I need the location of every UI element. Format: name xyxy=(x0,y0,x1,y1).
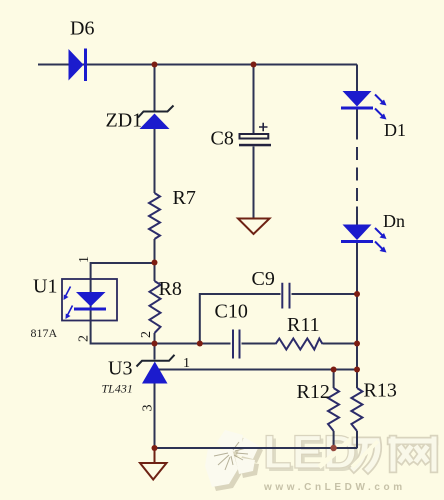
svg-text:U3: U3 xyxy=(108,358,132,380)
watermark dao glyph xyxy=(352,441,378,469)
svg-text:1: 1 xyxy=(77,256,92,263)
svg-text:2: 2 xyxy=(77,335,92,342)
resistor R8 xyxy=(150,278,182,333)
junction at bottom rail and R12 bottom xyxy=(330,445,336,451)
junction at top rail and C8 branch xyxy=(251,62,257,68)
capacitor C9 xyxy=(252,268,290,309)
diode D6 xyxy=(69,18,95,82)
junction at reference wire and R13 top xyxy=(354,367,360,373)
junction at C9 right and LED string column xyxy=(354,291,360,297)
junction at reference wire and R12 top xyxy=(331,367,337,373)
wire: U3 reference pin 1 xyxy=(158,369,357,371)
svg-text:Dn: Dn xyxy=(383,211,405,231)
resistor R12 xyxy=(297,381,340,431)
wire: R13 legs xyxy=(356,370,358,449)
junction at top rail and ZD1 column xyxy=(152,62,158,68)
wire: C8 branch xyxy=(253,65,255,219)
svg-text:C9: C9 xyxy=(252,268,275,290)
svg-text:D6: D6 xyxy=(70,18,94,40)
wire: C10/R11 row xyxy=(155,343,358,345)
junction at R11 right and LED string column xyxy=(354,341,360,347)
LED D1 xyxy=(341,91,406,140)
capacitor C8 xyxy=(211,123,272,150)
svg-text:817A: 817A xyxy=(31,326,58,340)
zener ZD1 xyxy=(106,106,174,132)
svg-text:R12: R12 xyxy=(297,381,330,403)
svg-text:R13: R13 xyxy=(364,380,397,402)
svg-text:C8: C8 xyxy=(211,128,234,150)
junction at R7/R8 node and U1 pin 1 xyxy=(152,260,158,266)
svg-text:U1: U1 xyxy=(33,276,57,298)
optocoupler U1 xyxy=(31,276,118,341)
junction at R8 bottom / U3 cathode node xyxy=(152,341,158,347)
svg-text:D1: D1 xyxy=(384,120,406,140)
watermark flower star xyxy=(205,430,263,491)
resistor R13 xyxy=(351,380,396,432)
wire: bottom rail xyxy=(155,447,358,449)
ground below U3 xyxy=(140,448,167,480)
ground below C8 xyxy=(238,219,270,235)
resistor R7 xyxy=(149,187,196,239)
wire: ZD1/R7/R8/U3 column xyxy=(154,65,156,449)
watermark LED网 logo xyxy=(205,425,434,493)
svg-text:R8: R8 xyxy=(159,278,182,300)
LED Dn xyxy=(341,211,405,253)
svg-text:C10: C10 xyxy=(215,301,248,323)
junction at C9 branch and C10 row xyxy=(197,341,203,347)
wire: C9 branch xyxy=(200,294,357,344)
wire: dashed segment between D1 and Dn xyxy=(356,147,358,201)
svg-text:2: 2 xyxy=(139,331,154,338)
svg-text:LED: LED xyxy=(263,425,357,478)
wire: R12 legs xyxy=(333,370,335,449)
svg-text:R11: R11 xyxy=(287,314,320,336)
svg-text:TL431: TL431 xyxy=(102,382,133,396)
wire: top rail xyxy=(38,64,357,66)
watermark LED text xyxy=(263,425,360,481)
svg-text:R7: R7 xyxy=(173,187,196,209)
svg-text:3: 3 xyxy=(141,405,156,412)
svg-text:www.CnLEDW.com: www.CnLEDW.com xyxy=(263,482,406,493)
TL431 U3 xyxy=(102,355,175,396)
svg-text:1: 1 xyxy=(183,356,190,371)
wire: U1 pin1 and pin2 xyxy=(91,263,155,344)
svg-text:ZD1: ZD1 xyxy=(106,110,143,132)
junction at bottom rail and U3 anode/ground xyxy=(152,445,158,451)
watermark net character xyxy=(391,439,434,469)
capacitor C10 xyxy=(215,301,248,359)
resistor R11 xyxy=(276,314,323,350)
wire: right column (LED string) xyxy=(356,65,358,370)
